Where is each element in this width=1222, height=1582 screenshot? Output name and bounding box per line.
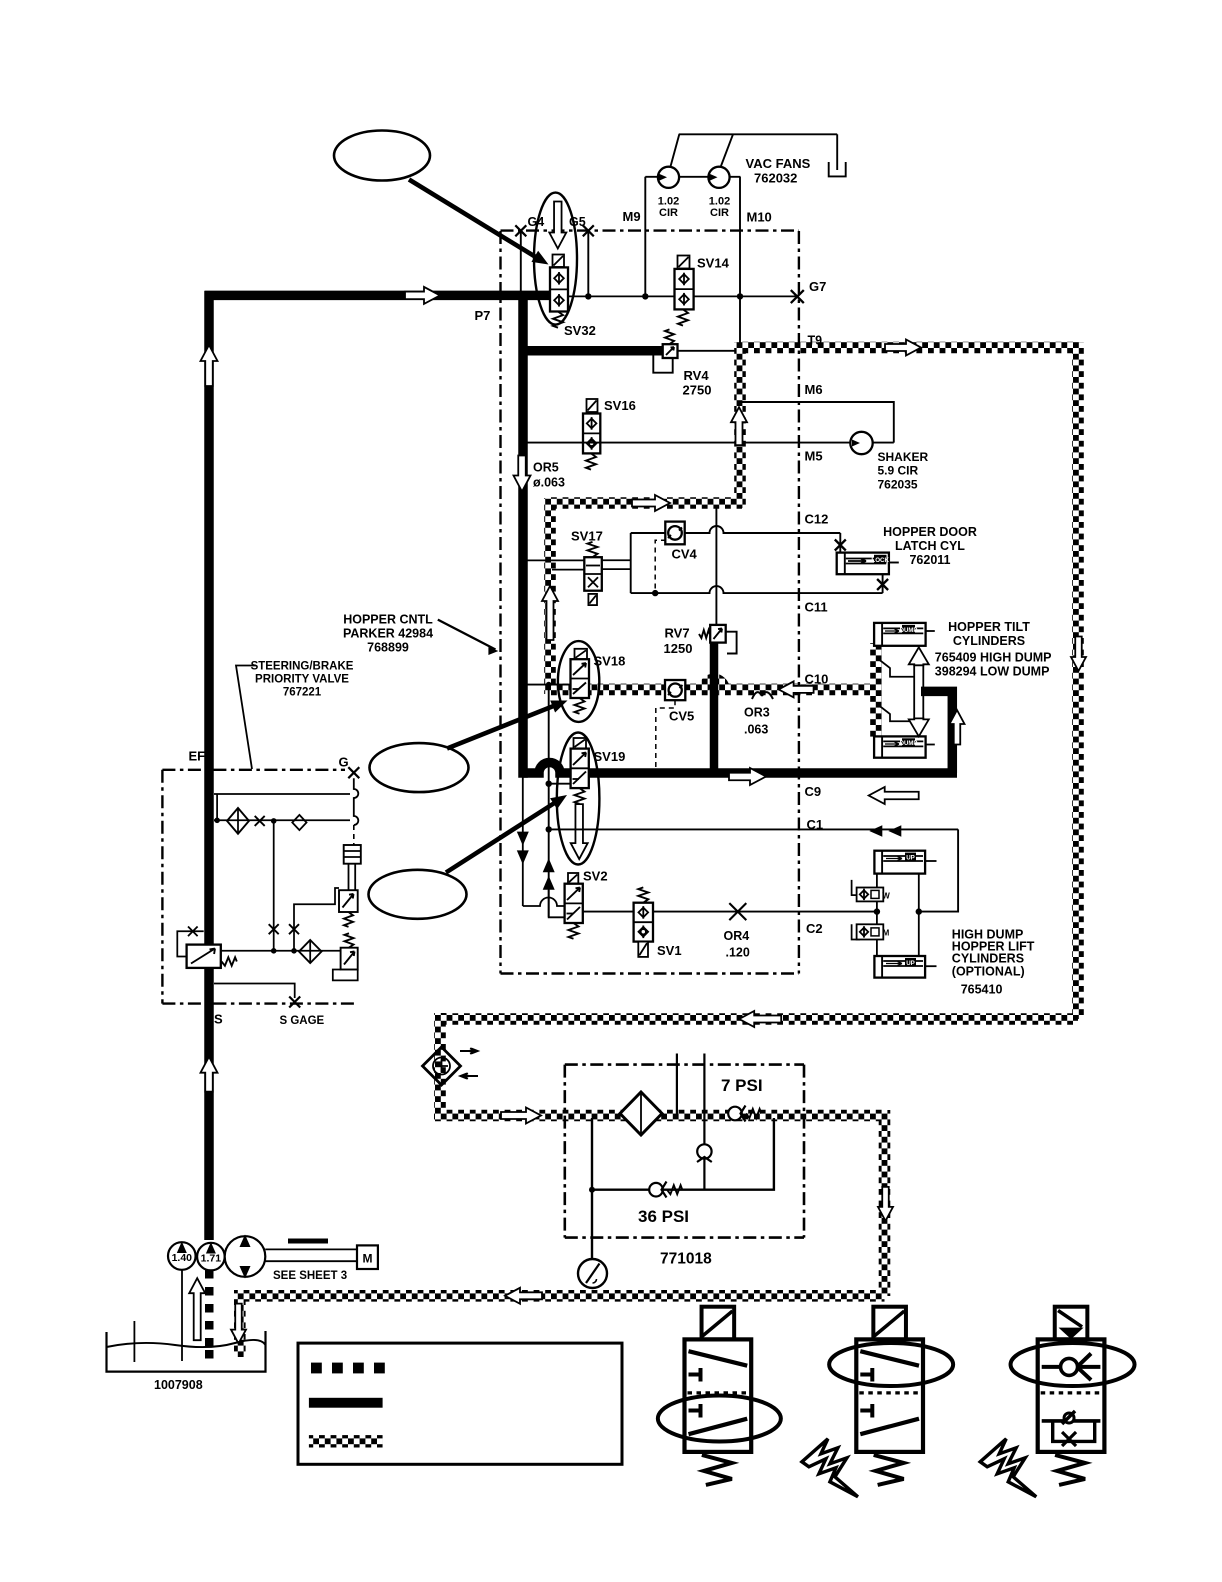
- wire tilt upper rod stub: [926, 630, 935, 632]
- wire SV18 pressure line: [527, 684, 571, 686]
- valve SV14 solenoid: [678, 256, 690, 269]
- wire RV4 outlet to return: [678, 350, 737, 352]
- wire relief pilot bracket: [294, 888, 339, 951]
- wire LS drop to bottom line: [273, 821, 275, 951]
- detail valve solenoid: [1055, 1307, 1088, 1340]
- flow arrow left on C10: [779, 681, 814, 697]
- cylinder lift upper: [874, 851, 925, 874]
- port G5 X: [583, 225, 594, 236]
- valve SV1 solenoid: [638, 942, 648, 957]
- wire checkered return to tank horizontal: [240, 1290, 885, 1302]
- wire checkered return vertical to C10: [544, 498, 556, 694]
- valve SV14 spring: [678, 309, 688, 325]
- motor shaker (5.9 CIR): [850, 432, 872, 454]
- valve SV18 solenoid: [575, 649, 588, 660]
- svg-text:G7: G7: [809, 279, 826, 294]
- relief valve RV7 body: [710, 625, 726, 643]
- callout arrow to SV32: [409, 180, 539, 260]
- callout arrow to SV18: [447, 705, 556, 749]
- svg-text:36 PSI: 36 PSI: [638, 1207, 689, 1226]
- wire lift lower rod stub: [925, 965, 936, 967]
- orifice diamond on LS line: [292, 815, 306, 830]
- svg-text:SV2: SV2: [583, 869, 608, 884]
- svg-text:S: S: [214, 1012, 223, 1027]
- svg-text:LATCH CYL: LATCH CYL: [895, 539, 965, 553]
- wire checkered tilt-cylinder rod-side vertical: [870, 643, 882, 737]
- svg-text:M: M: [363, 1252, 373, 1266]
- node M9 junction: [642, 293, 648, 299]
- node SV18 branch: [546, 682, 552, 688]
- svg-text:G: G: [339, 755, 349, 770]
- node C1 junction: [546, 826, 552, 832]
- wire checkered outer return right vertical: [1072, 342, 1084, 1019]
- orifice OR4 X: [729, 903, 746, 920]
- svg-text:C11: C11: [805, 600, 828, 615]
- valve SV16 solenoid: [587, 399, 598, 412]
- struck-out label above shaft: [288, 1239, 328, 1244]
- port S GAGE X: [289, 997, 300, 1008]
- svg-text:HOPPER DOOR: HOPPER DOOR: [883, 525, 977, 539]
- boundary 771018 manifold dash-dot box: [565, 1063, 804, 1066]
- breather arrows: [460, 1048, 476, 1053]
- svg-text:RV7: RV7: [665, 626, 690, 641]
- detail valve pilot check bottom chamber: [1042, 1419, 1101, 1423]
- callout ellipse around SV19: [557, 733, 600, 865]
- wire RV7 inlet from CV4 node: [715, 507, 717, 626]
- legend thick line sample: [309, 1398, 383, 1408]
- svg-text:P7: P7: [475, 308, 491, 323]
- wire checkered C10 line to tilt cylinders with hop over RV7 drop: [550, 679, 876, 689]
- svg-text:771018: 771018: [660, 1251, 712, 1268]
- orifice OR5 flow arrow: [514, 456, 531, 492]
- svg-text:CV4: CV4: [672, 547, 698, 562]
- flow arrow blind-end up between tilt cylinders: [909, 647, 929, 736]
- relief valve RV4 drain box: [653, 354, 672, 373]
- detail valve shuttle top chamber: [1042, 1365, 1101, 1369]
- detail valve dotted centre line: [688, 1391, 749, 1394]
- node bottom line junction 1: [271, 948, 277, 954]
- wire steering bottom line: [221, 950, 341, 952]
- valve SV1 spring top: [638, 887, 648, 902]
- wire lift blind-side vertical: [918, 874, 920, 956]
- detail valve body: [1038, 1339, 1105, 1452]
- wire tilt rod-side port lower diagonal: [877, 704, 914, 721]
- port G gauge X: [348, 767, 359, 778]
- wire steering LS line 1: [214, 793, 350, 795]
- svg-text:765410: 765410: [961, 983, 1003, 997]
- svg-text:VAC FANS: VAC FANS: [746, 156, 811, 171]
- node LS junction: [214, 818, 220, 824]
- wire SV17 work lines to CV4 node: [602, 559, 631, 561]
- node lift rod junction: [874, 908, 880, 914]
- valve SV2 spring: [569, 923, 579, 939]
- wire thick C9 line with hop over return vertical: [523, 763, 957, 774]
- orifice X on LS drop: [269, 924, 279, 934]
- cylinder hopper tilt lower: [874, 736, 926, 757]
- svg-text:SHAKER: SHAKER: [878, 450, 929, 464]
- check valve CV4 pilot dashed line: [655, 540, 666, 593]
- valve SV1 body: [634, 903, 653, 942]
- tank fluid surface wavy line: [107, 1340, 266, 1347]
- boundary hopper control manifold dash-dot box: [499, 231, 501, 974]
- flow arrow up on SV19 drop 1: [543, 858, 555, 872]
- node bottom line junction 2: [291, 948, 297, 954]
- svg-text:CIR: CIR: [659, 207, 678, 219]
- svg-text:SV32: SV32: [564, 323, 596, 338]
- svg-text:SV1: SV1: [657, 943, 682, 958]
- svg-text:C10: C10: [805, 672, 829, 687]
- flow arrow right on P7 line: [405, 287, 440, 304]
- flow arrow left on return to tank: [505, 1288, 542, 1304]
- node LS line junction: [271, 818, 277, 824]
- flow arrow right on T9: [885, 340, 921, 356]
- check valve CV5 pilot dashed line: [656, 700, 675, 770]
- svg-text:T9: T9: [808, 334, 823, 348]
- svg-text:S GAGE: S GAGE: [280, 1015, 325, 1027]
- detail valve solenoid: [873, 1307, 906, 1340]
- check valve mid (down check): [697, 1144, 711, 1158]
- breather filter symbol: [423, 1047, 461, 1085]
- svg-text:M9: M9: [623, 209, 641, 224]
- motor vac fan 1 (1.02 CIR): [658, 167, 679, 188]
- legend dashed line sample: [311, 1363, 322, 1374]
- node CV4 pilot junction: [652, 590, 658, 596]
- cylinder lift lower: [874, 956, 925, 978]
- detail valve top chamber diagonal and T: [860, 1351, 919, 1366]
- svg-text:765409 HIGH DUMP: 765409 HIGH DUMP: [935, 651, 1052, 665]
- svg-text:SV17: SV17: [571, 529, 603, 544]
- cylinder hopper tilt upper: [874, 623, 926, 646]
- wire manifold inlet stub 1: [676, 1054, 678, 1116]
- svg-text:C1: C1: [807, 817, 824, 832]
- flow arrow down on drop 1: [517, 832, 529, 846]
- wire C2 line SV2 to lift cylinders: [583, 911, 877, 913]
- node G5 junction: [585, 293, 591, 299]
- flow arrow left on outer bottom return: [739, 1011, 781, 1027]
- valve SV19 body: [571, 749, 589, 789]
- wire vac fan supply header: [645, 176, 740, 178]
- motor vac fan 2 (1.02 CIR): [708, 167, 729, 188]
- wire checkered outer return bottom horizontal: [440, 1013, 1078, 1025]
- valve SV17 solenoid: [588, 594, 597, 605]
- node lift blind junction: [916, 908, 922, 914]
- wire tilt lower rod stub: [926, 744, 935, 746]
- port latch cylinder X bottom: [877, 579, 888, 590]
- port G7 plugged X: [791, 290, 804, 303]
- svg-text:RV4: RV4: [684, 368, 710, 383]
- detail valve return spring: [1055, 1455, 1085, 1485]
- svg-text:1007908: 1007908: [154, 1378, 203, 1392]
- wire checkered return drop to cooler manifold: [434, 1013, 446, 1116]
- flow arrow down into tank: [231, 1304, 246, 1344]
- svg-text:OR3: OR3: [744, 706, 770, 720]
- svg-text:398294 LOW DUMP: 398294 LOW DUMP: [935, 665, 1050, 679]
- svg-text:STEERING/BRAKE: STEERING/BRAKE: [251, 661, 354, 673]
- svg-text:SEE SHEET 3: SEE SHEET 3: [273, 1270, 347, 1282]
- relief valve steering upper body: [339, 890, 358, 912]
- valve SV2 body: [565, 884, 583, 923]
- wire checkered return horizontal above SV17: [549, 497, 742, 509]
- wire SV19 vertical from SV18 line to SV2: [548, 685, 550, 918]
- wire thick branch to RV4: [523, 346, 663, 356]
- wire C1 drop at lift cylinders: [919, 829, 958, 911]
- flow arrow up on return above CV-SV17: [542, 586, 558, 640]
- flow arrow right on C9 thick line: [729, 768, 766, 785]
- svg-text:PARKER 42984: PARKER 42984: [343, 627, 433, 641]
- svg-text:SV19: SV19: [594, 749, 626, 764]
- motor box M: [357, 1245, 378, 1269]
- svg-text:2750: 2750: [683, 383, 712, 398]
- wire CV4 bottom work line with hop: [631, 586, 883, 593]
- wire fan2 drain diagonal: [721, 134, 733, 166]
- detail valve body: [685, 1339, 752, 1452]
- svg-text:M: M: [883, 929, 890, 938]
- flow arrow down right of 771018: [878, 1187, 893, 1221]
- svg-text:DUMP: DUMP: [900, 741, 918, 747]
- wire lift rod-side vertical: [876, 874, 878, 956]
- wire S gage line: [214, 984, 295, 999]
- relief valve RV4 spring: [665, 329, 674, 344]
- orifice X on LS line: [255, 816, 265, 826]
- wire 36 PSI riser: [703, 1145, 705, 1190]
- svg-text:HOPPER CNTL: HOPPER CNTL: [343, 613, 433, 627]
- priority valve spool box: [187, 945, 221, 968]
- lightning bolt for valve 3: [980, 1439, 1036, 1497]
- flow arrow down on drop 2: [517, 850, 529, 864]
- wire fan1 drain diagonal: [671, 134, 680, 166]
- callout flow arrow down SV32: [549, 202, 566, 249]
- port G4 line: [520, 231, 522, 291]
- wire CV4 top work line with hop: [631, 526, 841, 533]
- wire latch cylinder rod-side drop: [839, 533, 841, 553]
- wire 36 PSI loop: [592, 1118, 774, 1190]
- relief valve RV7 spring: [699, 630, 710, 638]
- check valve CV5: [665, 680, 685, 700]
- svg-text:.120: .120: [726, 946, 750, 960]
- boundary steering-brake priority valve dash-dot box: [162, 769, 345, 771]
- svg-text:1.02: 1.02: [709, 196, 730, 208]
- pump shaft to motor: [265, 1248, 357, 1250]
- lightning bolt for valve 2: [802, 1439, 858, 1497]
- svg-text:768899: 768899: [367, 641, 409, 655]
- wire thick tilt cylinder blind-end line: [921, 691, 952, 773]
- svg-text:5.9 CIR: 5.9 CIR: [878, 464, 919, 478]
- svg-text:CV5: CV5: [669, 709, 694, 724]
- tank reservoir 1007908: [107, 1331, 266, 1372]
- svg-text:.063: .063: [744, 723, 768, 737]
- svg-text:M6: M6: [805, 382, 823, 397]
- valve SV16 spring: [586, 453, 596, 469]
- gauge pressure: [578, 1259, 607, 1288]
- filter symbol on LS line: [227, 808, 249, 834]
- wire latch cylinder rod stub: [889, 562, 899, 564]
- velocity fuse lower: [852, 924, 860, 939]
- wire latch cylinder blind-side drop: [882, 574, 884, 593]
- callout ellipse top-left: [334, 131, 430, 181]
- cylinder hopper door latch 762011: [837, 553, 889, 575]
- wire thick pressure line EF left vertical: [204, 291, 214, 1240]
- callout ellipse lower-left: [369, 870, 467, 919]
- svg-text:M5: M5: [805, 449, 823, 464]
- wire gauge drop: [591, 1118, 593, 1260]
- wire pump suction: [181, 1270, 183, 1361]
- priority valve bypass bracket with X: [177, 931, 203, 956]
- relief valve RV4 body: [663, 344, 678, 358]
- flow arrow right into 7PSI manifold: [501, 1108, 541, 1124]
- flow arrow left on C1 line 2: [888, 825, 901, 837]
- flow arrow left on C1 line 1: [869, 825, 882, 837]
- wire lift upper rod stub: [925, 860, 936, 862]
- valve SV18 spring: [575, 698, 585, 714]
- wire manifold inlet stub 2: [703, 1054, 705, 1146]
- svg-text:C12: C12: [805, 512, 829, 527]
- valve SV14 body: [675, 269, 694, 310]
- relief valve steering lower spring: [345, 933, 354, 947]
- svg-text:(OPTIONAL): (OPTIONAL): [952, 965, 1025, 979]
- svg-text:1.71: 1.71: [201, 1253, 222, 1265]
- relief valve RV7 drain box: [726, 632, 737, 654]
- check valve 7 PSI: [728, 1107, 742, 1121]
- detail valve callout ellipse: [658, 1396, 781, 1442]
- port latch cylinder X top: [835, 540, 846, 551]
- svg-text:762035: 762035: [878, 478, 918, 492]
- check valve 36 PSI: [649, 1183, 663, 1197]
- svg-text:1.02: 1.02: [658, 196, 679, 208]
- wire C9 thin drop to SV2: [523, 777, 565, 906]
- svg-text:1.40: 1.40: [172, 1252, 193, 1264]
- valve SV17 body: [584, 557, 602, 591]
- wire thick RV7 drop to C9: [710, 641, 719, 773]
- wire checkered return through 7-PSI manifold: [434, 1110, 885, 1122]
- node SV19 feed junction: [546, 781, 552, 787]
- flow arrow up on SV19 drop 2: [543, 876, 555, 890]
- detail valve bottom chamber T and diagonal: [860, 1419, 919, 1435]
- callout ellipse around SV32: [534, 193, 577, 325]
- port G4 X: [515, 225, 526, 236]
- callout ellipse mid-left: [370, 743, 469, 792]
- svg-text:ø.063: ø.063: [533, 476, 565, 490]
- filter in 771018 manifold: [620, 1092, 662, 1135]
- relief valve steering upper spring: [344, 912, 353, 927]
- wire checkered return T-line from RV4/T9 down to mid manifold: [734, 342, 746, 508]
- callout ellipse around SV18: [558, 641, 599, 722]
- wire SV17 pressure line: [523, 559, 584, 561]
- wire checkered T9 return line: [740, 342, 1078, 354]
- detail valve dotted centre line: [1041, 1391, 1102, 1394]
- wire vac fan case drain header: [679, 133, 838, 135]
- orifice OR3 symbol: [752, 692, 773, 699]
- wire C1 line to lift cylinders: [549, 828, 958, 830]
- valve SV17 spring: [588, 542, 598, 557]
- detail valve top chamber diagonal and T: [689, 1351, 748, 1366]
- detail valve body: [856, 1339, 923, 1452]
- detail valve solenoid: [702, 1307, 735, 1340]
- wire M10 vertical down to T9: [739, 177, 741, 348]
- velocity fuse upper: [852, 880, 860, 895]
- wire checkered return drop right of 771018 manifold: [879, 1110, 891, 1296]
- flow arrow right above SV17: [632, 495, 670, 511]
- svg-text:OR5: OR5: [533, 461, 559, 475]
- priority valve spring right: [222, 957, 237, 966]
- load sense rod lines: [348, 864, 350, 891]
- svg-text:UP: UP: [906, 960, 915, 967]
- svg-text:7 PSI: 7 PSI: [721, 1076, 763, 1095]
- flow arrow up on return to T9: [731, 407, 747, 445]
- node 36psi junction: [589, 1187, 595, 1193]
- svg-text:C9: C9: [805, 784, 822, 799]
- legend checkered line sample: [309, 1435, 383, 1447]
- pump main variable: [225, 1236, 266, 1277]
- drain line into vented reservoir symbol: [836, 134, 838, 170]
- detail valve return spring: [874, 1455, 904, 1485]
- pump section 1.40: [168, 1242, 196, 1270]
- svg-text:EF: EF: [189, 749, 206, 764]
- svg-text:CYLINDERS: CYLINDERS: [953, 634, 1025, 648]
- svg-text:PRIORITY VALVE: PRIORITY VALVE: [255, 674, 349, 686]
- flow arrow up on EF line bottom: [201, 1057, 218, 1092]
- wire steering LS connector vertical: [216, 794, 218, 820]
- svg-text:C2: C2: [806, 921, 823, 936]
- relief valve steering lower drain bracket: [333, 970, 358, 981]
- node M10 junction: [737, 293, 743, 299]
- svg-text:762011: 762011: [909, 553, 950, 567]
- check valve CV4 pilot operated: [665, 522, 684, 545]
- legend box: [298, 1343, 622, 1464]
- wire checkered return into tank: [234, 1290, 246, 1357]
- svg-text:M10: M10: [747, 210, 772, 225]
- callout flow arrow down SV19: [571, 804, 588, 859]
- wire thick pressure line P7 horizontal: [205, 291, 553, 301]
- valve SV2 solenoid: [568, 873, 578, 884]
- load sense piston: [344, 845, 361, 864]
- wire tilt rod-side port upper diagonal: [877, 658, 914, 677]
- wire thick pressure manifold vertical: [518, 295, 528, 777]
- svg-text:CYLINDERS: CYLINDERS: [952, 952, 1024, 966]
- valve SV32 solenoid: [553, 255, 565, 268]
- wire SV19 left port stub: [549, 783, 571, 785]
- filter symbol on bottom line: [299, 940, 322, 963]
- wire steering LS line 2: [214, 819, 350, 821]
- svg-text:1250: 1250: [664, 641, 693, 656]
- tank symbol top right: [829, 162, 846, 176]
- svg-text:SV14: SV14: [697, 256, 730, 271]
- svg-text:UP: UP: [906, 855, 915, 862]
- flow arrow left annotation near C9: [869, 787, 919, 804]
- port G5 line: [587, 231, 589, 296]
- orifice X on pilot riser: [289, 924, 299, 934]
- wire M9 vertical: [644, 177, 646, 297]
- svg-text:CIR: CIR: [710, 207, 729, 219]
- wire M6 shaker line: [741, 402, 894, 443]
- valve SV16 body: [583, 414, 600, 454]
- valve SV32 body: [550, 267, 568, 311]
- relief valve steering lower body: [341, 948, 358, 970]
- detail valve return spring: [702, 1455, 732, 1485]
- wire gauge line SV32 to G7: [566, 295, 797, 297]
- svg-text:W: W: [882, 892, 890, 901]
- svg-text:DUMP: DUMP: [900, 628, 918, 634]
- pump section 1.71: [197, 1243, 225, 1271]
- valve SV19 spring: [575, 788, 585, 804]
- tank baffle line: [133, 1321, 135, 1362]
- valve SV19 solenoid: [574, 738, 587, 749]
- wire SV2 bottom feed: [549, 890, 565, 917]
- callout arrow to SV19: [446, 802, 556, 873]
- detail valve dotted centre line: [859, 1391, 920, 1394]
- valve SV18 body: [571, 659, 590, 698]
- svg-text:767221: 767221: [283, 687, 322, 699]
- svg-text:OR4: OR4: [724, 929, 750, 943]
